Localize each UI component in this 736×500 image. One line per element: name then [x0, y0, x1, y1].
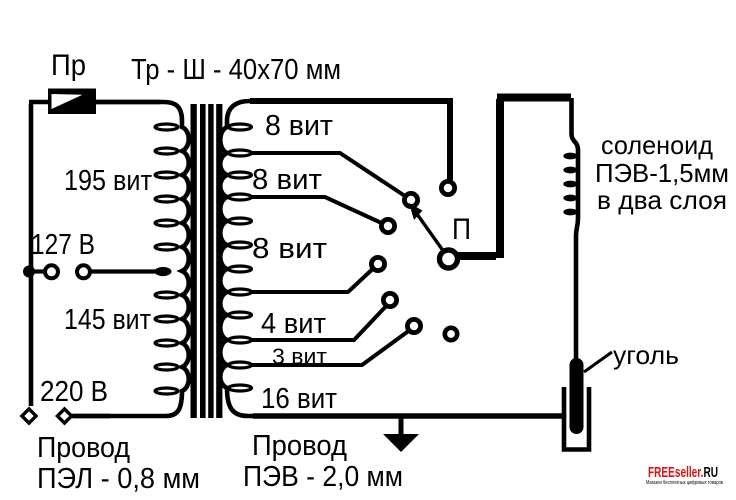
switch П contact 2: [404, 193, 417, 206]
wire: secondary bottom rail to electrode holder: [253, 413, 562, 419]
svg-text:уголь: уголь: [613, 340, 679, 370]
junction dot at 127 В tap: [23, 266, 35, 278]
wire: secondary tap 5: [252, 327, 414, 365]
switch П contact 3: [381, 219, 394, 232]
switch П contact 6: [407, 319, 420, 332]
fuse Пр: [48, 89, 96, 115]
switch П contact 1: [441, 181, 454, 194]
wire: fuse to transformer primary top: [96, 100, 160, 105]
switch П common pole: [440, 250, 458, 268]
wire: junction to 127 В terminal: [29, 269, 44, 273]
wire: left vertical from fuse down to 220 В plug terminal: [29, 104, 34, 406]
svg-text:Магазин бесплатных цифровых то: Магазин бесплатных цифровых товаров: [646, 480, 723, 486]
solenoid L1 (ПЭВ-1,5мм в два слоя): [563, 98, 578, 362]
wire: secondary top rail to switch contact 1: [250, 101, 450, 180]
switch П contact 4: [371, 257, 384, 270]
svg-text:8 вит: 8 вит: [252, 233, 327, 265]
svg-text:П: П: [452, 213, 471, 246]
svg-text:ПЭЛ - 0,8 мм: ПЭЛ - 0,8 мм: [37, 463, 200, 495]
svg-text:Провод: Провод: [252, 430, 347, 462]
wire: secondary tap 1 (after first 8 вит): [252, 153, 411, 200]
pointer line to уголь label: [584, 352, 612, 372]
transformer T1 secondary winding: [220, 101, 253, 416]
ground: [383, 418, 419, 452]
svg-text:16 вит: 16 вит: [261, 383, 337, 415]
svg-text:195 вит: 195 вит: [64, 165, 152, 197]
wire: 220 В terminal to primary winding bottom: [72, 414, 110, 419]
svg-text:ПЭВ - 2,0 мм: ПЭВ - 2,0 мм: [243, 461, 403, 493]
svg-text:8 вит: 8 вит: [265, 110, 333, 142]
wire: switch common pole to solenoid: [456, 98, 571, 259]
terminal 220 В contact 2 (diamond): [57, 409, 71, 423]
transformer T1 core: [191, 104, 223, 418]
svg-text:3 вит: 3 вит: [272, 344, 327, 369]
label Провод ПЭЛ - 0,8 мм: [37, 432, 200, 495]
switch П arm with arrowhead: [409, 203, 444, 252]
wire: secondary tap 2: [252, 197, 388, 226]
svg-text:FREEseller.RU: FREEseller.RU: [648, 464, 718, 481]
svg-text:Тр - Ш - 40х70 мм: Тр - Ш - 40х70 мм: [131, 54, 341, 86]
carbon electrode rod (уголь): [570, 358, 584, 434]
label Провод ПЭВ - 2,0 мм: [243, 430, 403, 493]
electrode holder cup: [564, 387, 589, 450]
svg-text:Провод: Провод: [37, 432, 130, 464]
svg-text:Пр: Пр: [51, 49, 86, 82]
svg-text:220 В: 220 В: [40, 376, 108, 408]
wire: 127 В tap to primary winding: [90, 269, 158, 273]
svg-text:ПЭВ-1,5мм: ПЭВ-1,5мм: [595, 158, 729, 188]
wire: secondary tap 4: [252, 302, 390, 340]
svg-text:145 вит: 145 вит: [64, 304, 151, 336]
terminal 127 В contact 1: [45, 265, 58, 278]
tap blob on primary winding at 127 В: [155, 267, 172, 276]
svg-text:127 В: 127 В: [31, 229, 95, 261]
switch П contact 5: [383, 293, 396, 306]
svg-text:4 вит: 4 вит: [261, 308, 326, 340]
watermark FREEseller.RU: [646, 464, 723, 486]
wire: top left horizontal into fuse: [29, 100, 49, 105]
svg-text:в два слоя: в два слоя: [597, 185, 727, 215]
svg-text:8 вит: 8 вит: [252, 164, 322, 196]
switch П contact 7 (unused): [445, 328, 457, 340]
svg-text:соленоид: соленоид: [601, 130, 713, 160]
label соленоид ПЭВ-1,5мм в два слоя: [595, 130, 729, 215]
terminal 127 В contact 2: [77, 265, 90, 278]
wire: secondary tap 3: [252, 264, 378, 292]
terminal 220 В contact 1 (diamond): [22, 409, 36, 423]
transformer T1 primary winding (195 + 145 вит): [73, 102, 189, 416]
